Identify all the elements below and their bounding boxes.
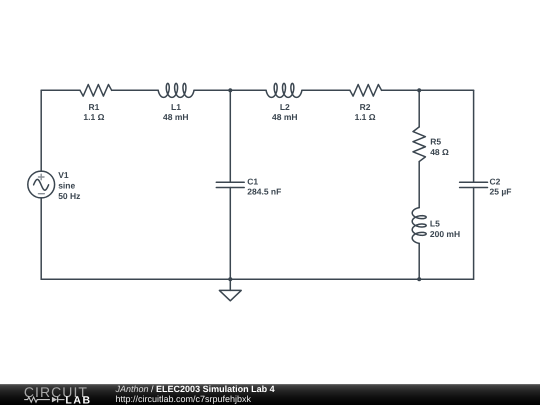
svg-text:C1: C1 bbox=[247, 177, 258, 187]
attribution line 1 bbox=[115, 384, 275, 394]
svg-text:200 mH: 200 mH bbox=[430, 229, 460, 239]
wire C1 down to bottom rail bbox=[229, 188, 231, 280]
wire node A down to C1 bbox=[229, 90, 231, 182]
wire top-left vertical (V1 to top rail) bbox=[40, 90, 42, 171]
svg-text:R2: R2 bbox=[360, 102, 371, 112]
CircuitLab logo resistor-diode symbol bbox=[24, 397, 50, 402]
ground bbox=[219, 279, 241, 301]
capacitor C1 bbox=[216, 177, 281, 197]
resistor R1 bbox=[80, 85, 112, 122]
svg-text:48 mH: 48 mH bbox=[272, 112, 298, 122]
wire L1 to node A bbox=[194, 89, 230, 91]
svg-text:L5: L5 bbox=[430, 218, 440, 228]
wire R1 to L1 bbox=[112, 89, 159, 91]
wire top rail left segment bbox=[41, 89, 80, 91]
CircuitLab logo wordmark CIRCUIT bbox=[24, 384, 88, 400]
node A (top of C1) bbox=[228, 88, 232, 92]
wire L2 to R2 bbox=[302, 89, 350, 91]
svg-text:LAB: LAB bbox=[65, 394, 91, 405]
capacitor C2 bbox=[460, 177, 512, 197]
svg-text:50 Hz: 50 Hz bbox=[58, 191, 80, 201]
svg-text:1.1 Ω: 1.1 Ω bbox=[83, 112, 104, 122]
wire bottom rail bbox=[41, 278, 473, 280]
resistor R5 bbox=[413, 127, 449, 162]
wire node B to top-right corner bbox=[419, 89, 473, 91]
wire R5 to L5 bbox=[418, 162, 420, 208]
wire V1 to bottom-left corner bbox=[40, 198, 42, 279]
svg-text:http://circuitlab.com/c7srpufe: http://circuitlab.com/c7srpufehjbxk bbox=[116, 394, 252, 404]
wire node A to L2 bbox=[230, 89, 266, 91]
svg-text:48 mH: 48 mH bbox=[163, 112, 189, 122]
node D (L5 / bottom rail junction) bbox=[417, 277, 421, 281]
svg-text:L1: L1 bbox=[171, 102, 181, 112]
CircuitLab logo wordmark LAB bbox=[65, 394, 91, 405]
wire L5 down to bottom rail bbox=[418, 243, 420, 279]
wire C2 down to bottom rail bbox=[473, 188, 475, 280]
svg-text:R5: R5 bbox=[430, 137, 441, 147]
svg-text:C2: C2 bbox=[490, 177, 501, 187]
footer bar bbox=[0, 384, 540, 405]
voltage source V1 bbox=[28, 170, 81, 201]
svg-text:V1: V1 bbox=[58, 170, 69, 180]
svg-text:L2: L2 bbox=[280, 102, 290, 112]
node B (top of R5 branch) bbox=[417, 88, 421, 92]
wire R2 to node B bbox=[382, 89, 420, 91]
svg-text:R1: R1 bbox=[88, 102, 99, 112]
wire right rail down to C2 bbox=[473, 90, 475, 182]
svg-text:sine: sine bbox=[58, 180, 75, 190]
wire node B down to R5 bbox=[418, 90, 420, 127]
inductor L1 bbox=[158, 83, 194, 122]
svg-text:48 Ω: 48 Ω bbox=[430, 147, 449, 157]
resistor R2 bbox=[350, 85, 382, 122]
inductor L2 bbox=[266, 83, 302, 122]
svg-text:284.5 nF: 284.5 nF bbox=[247, 186, 281, 196]
attribution line 2 bbox=[116, 394, 252, 404]
svg-text:JAnthon / ELEC2003 Simulation: JAnthon / ELEC2003 Simulation Lab 4 bbox=[115, 384, 275, 394]
svg-text:1.1 Ω: 1.1 Ω bbox=[355, 112, 376, 122]
inductor L5 bbox=[412, 208, 460, 244]
svg-text:25 µF: 25 µF bbox=[490, 186, 512, 196]
node C (C1 / ground junction) bbox=[228, 277, 232, 281]
